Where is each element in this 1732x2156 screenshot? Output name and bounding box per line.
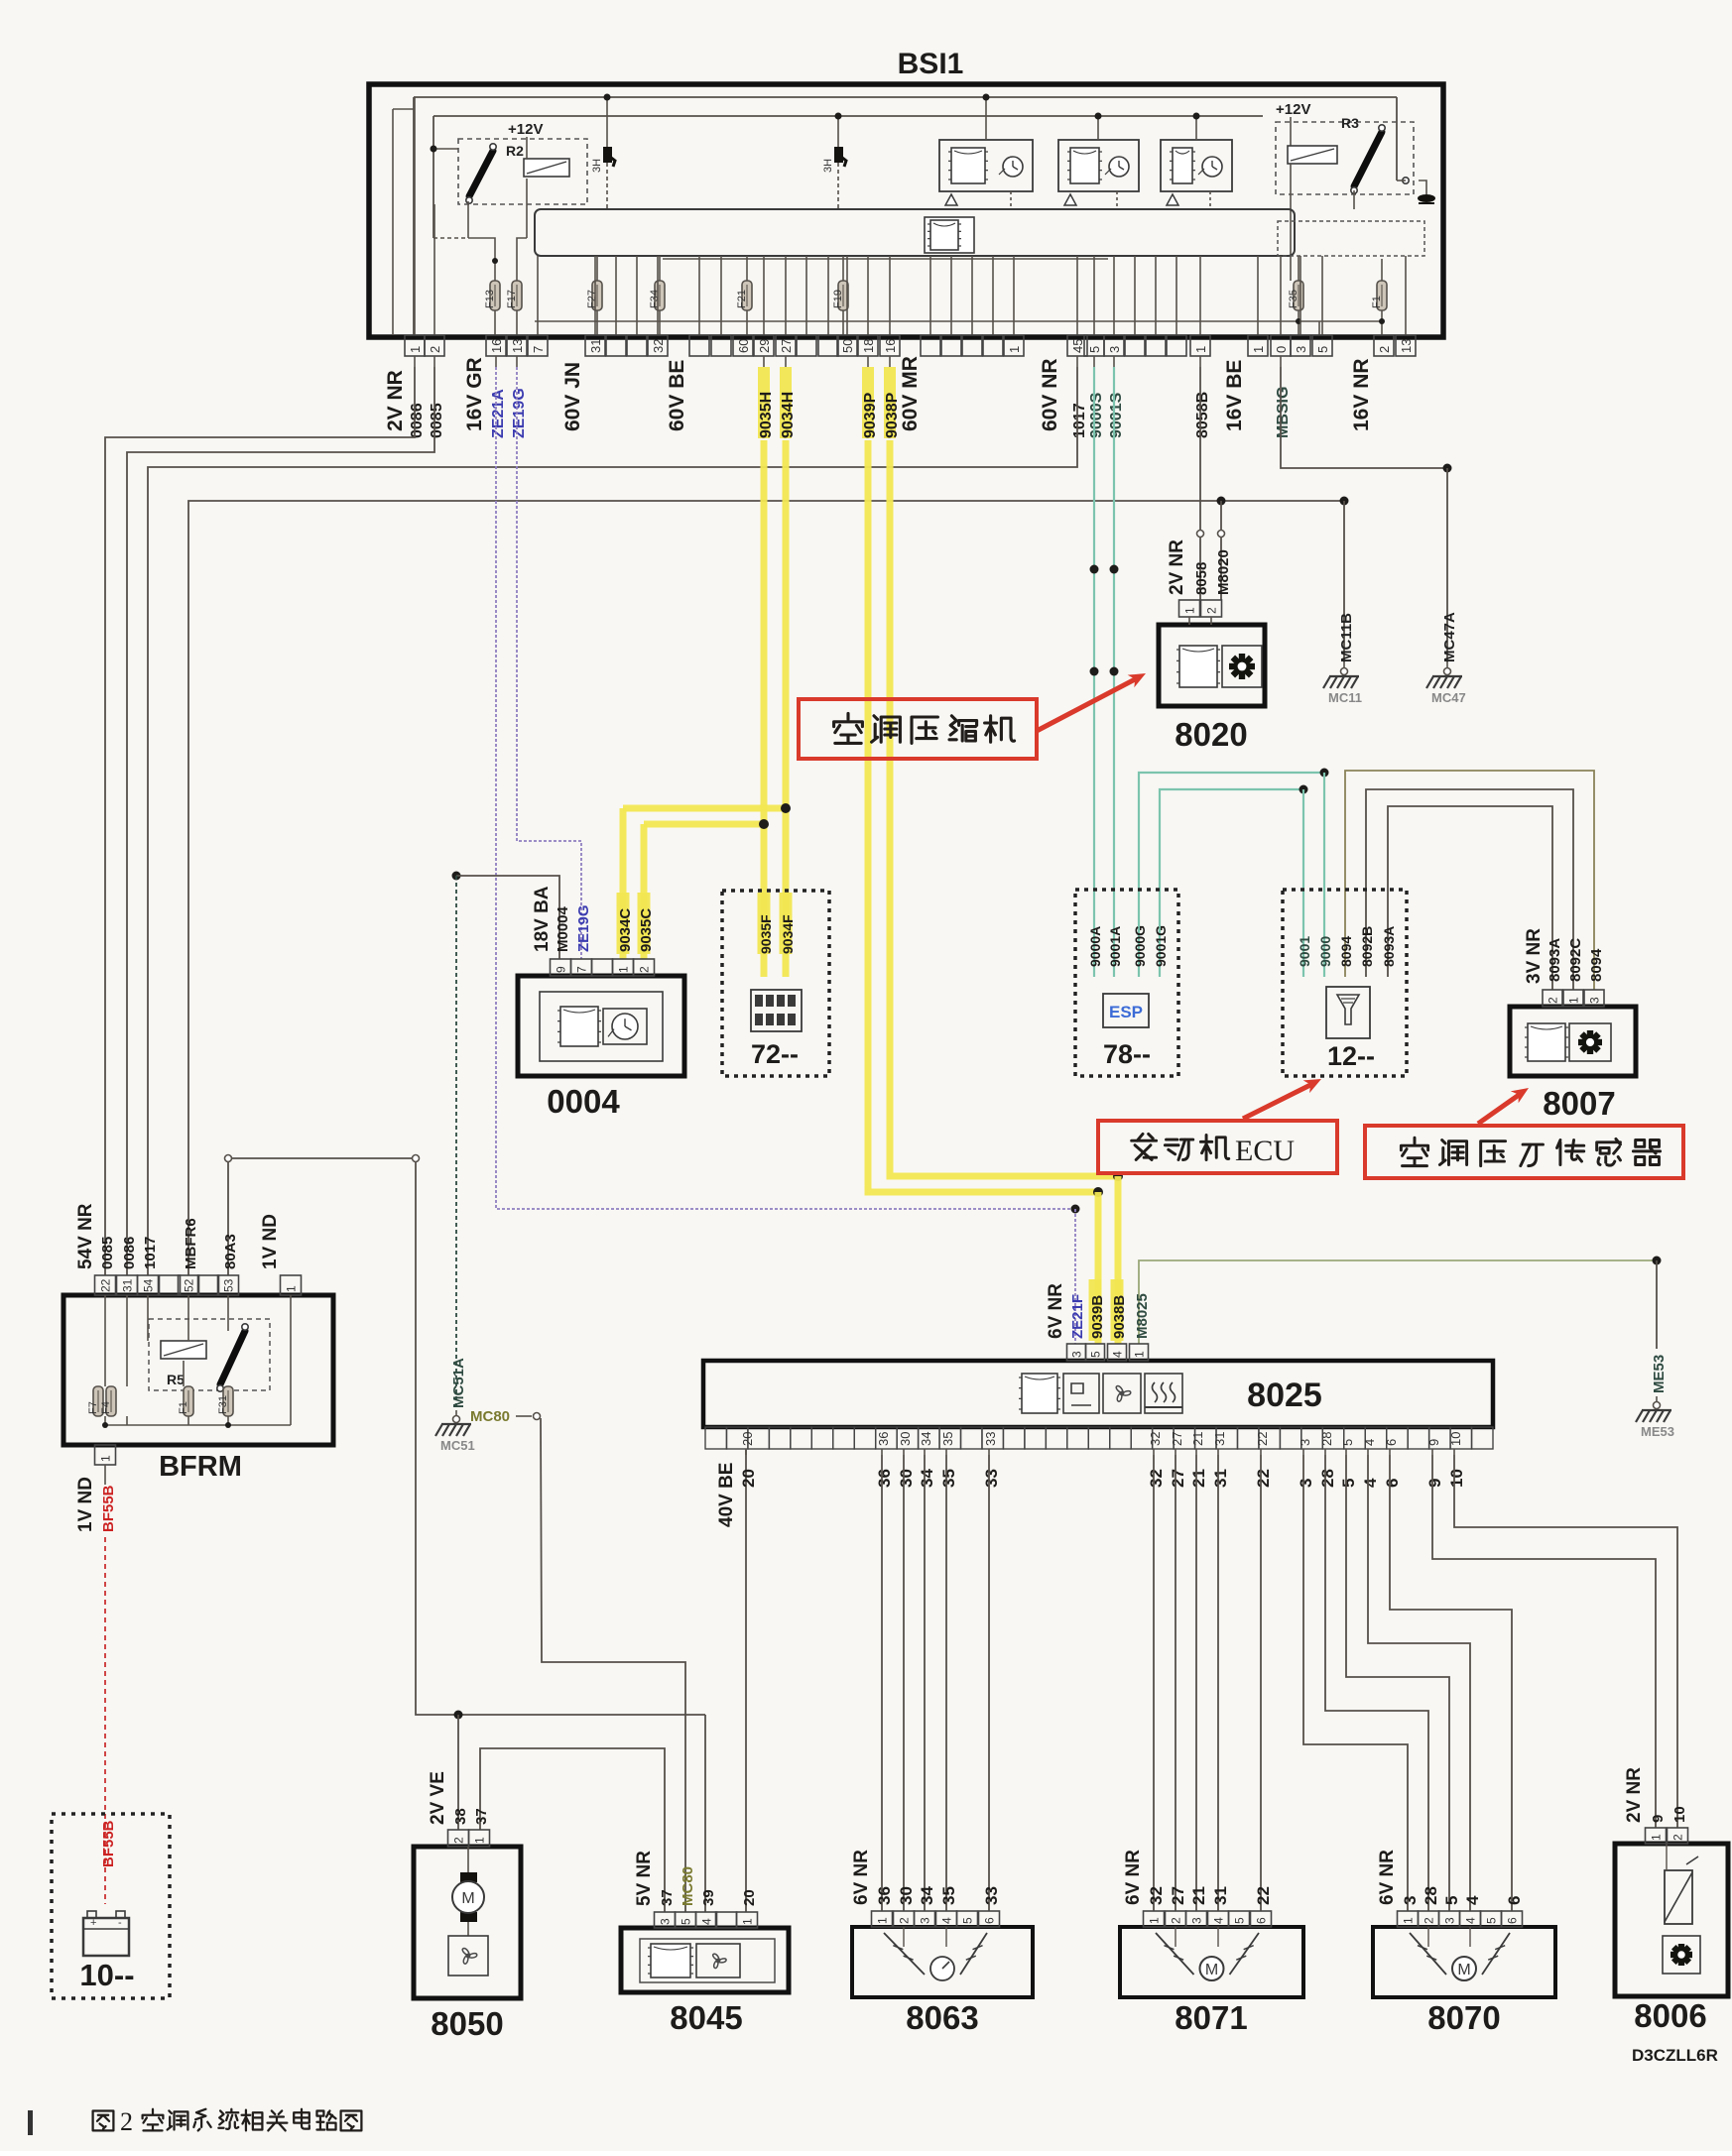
svg-text:3V NR: 3V NR	[1524, 928, 1545, 984]
svg-text:5: 5	[680, 1918, 693, 1925]
svg-text:16V GR: 16V GR	[463, 357, 486, 431]
svg-text:1: 1	[1133, 1351, 1147, 1358]
svg-text:8070: 8070	[1427, 1999, 1500, 2036]
svg-text:52: 52	[183, 1278, 196, 1292]
svg-text:8025: 8025	[1247, 1377, 1322, 1414]
svg-text:3H: 3H	[591, 159, 603, 173]
svg-text:21: 21	[1190, 1432, 1205, 1446]
svg-text:9039B: 9039B	[1089, 1295, 1106, 1339]
svg-text:0086: 0086	[121, 1237, 138, 1269]
svg-text:5: 5	[1339, 1479, 1358, 1488]
svg-text:8092C: 8092C	[1567, 938, 1584, 982]
svg-text:R3: R3	[1341, 115, 1359, 131]
svg-text:5: 5	[1089, 1351, 1103, 1358]
svg-text:2V NR: 2V NR	[384, 370, 407, 431]
svg-text:9: 9	[1425, 1479, 1444, 1488]
svg-text:20: 20	[740, 1432, 755, 1446]
svg-text:ZE19G: ZE19G	[511, 388, 528, 438]
svg-text:5: 5	[1442, 1896, 1461, 1905]
svg-text:3: 3	[659, 1918, 673, 1925]
svg-text:5: 5	[1233, 1917, 1247, 1924]
svg-text:ZE19G: ZE19G	[575, 904, 592, 952]
svg-text:28: 28	[1318, 1469, 1337, 1488]
svg-text:1: 1	[617, 966, 631, 973]
svg-text:9001G: 9001G	[1153, 925, 1169, 967]
svg-text:34: 34	[918, 1469, 936, 1488]
svg-text:ME53: ME53	[1641, 1424, 1674, 1439]
svg-text:9: 9	[555, 966, 568, 973]
svg-text:7: 7	[531, 346, 546, 353]
svg-text:F7: F7	[87, 1401, 99, 1414]
svg-text:9: 9	[1426, 1439, 1441, 1446]
svg-text:6: 6	[1505, 1896, 1524, 1905]
svg-text:F17: F17	[506, 290, 518, 308]
svg-text:1017: 1017	[1071, 403, 1088, 438]
svg-text:9039P: 9039P	[862, 392, 879, 438]
svg-text:BF55B: BF55B	[100, 1820, 117, 1867]
svg-text:60V MR: 60V MR	[899, 356, 922, 431]
svg-text:0086: 0086	[409, 403, 426, 438]
svg-text:MC47A: MC47A	[1441, 612, 1458, 662]
svg-text:32: 32	[651, 339, 666, 353]
svg-text:MBFR6: MBFR6	[183, 1218, 199, 1269]
svg-text:MBSIG: MBSIG	[1275, 387, 1292, 438]
svg-text:34: 34	[919, 1432, 933, 1446]
svg-text:F1: F1	[178, 1401, 189, 1414]
svg-text:6: 6	[1384, 1439, 1399, 1446]
svg-text:9: 9	[1650, 1815, 1667, 1823]
svg-text:3: 3	[1588, 997, 1602, 1004]
svg-text:4: 4	[1111, 1351, 1125, 1358]
svg-text:8071: 8071	[1175, 1999, 1247, 2036]
svg-text:3: 3	[1190, 1917, 1204, 1924]
svg-text:1: 1	[1007, 346, 1022, 353]
svg-text:MC11: MC11	[1328, 690, 1362, 705]
svg-text:F13: F13	[484, 290, 496, 308]
svg-text:4: 4	[1212, 1917, 1226, 1924]
svg-text:F21: F21	[736, 290, 748, 308]
svg-text:ECU: ECU	[1235, 1135, 1295, 1167]
svg-text:9034C: 9034C	[617, 908, 634, 952]
svg-text:8050: 8050	[431, 2005, 503, 2042]
svg-text:5: 5	[1485, 1917, 1499, 1924]
svg-text:3: 3	[1070, 1351, 1084, 1358]
svg-text:0085: 0085	[99, 1237, 116, 1269]
svg-text:16V NR: 16V NR	[1350, 358, 1373, 431]
svg-text:36: 36	[876, 1432, 891, 1446]
svg-text:8093A: 8093A	[1381, 926, 1397, 967]
svg-text:9034F: 9034F	[780, 914, 796, 954]
svg-text:60V NR: 60V NR	[1039, 358, 1061, 431]
svg-text:54V NR: 54V NR	[75, 1203, 96, 1269]
svg-text:M8020: M8020	[1215, 549, 1232, 595]
svg-text:18: 18	[861, 339, 876, 353]
svg-text:8045: 8045	[670, 1999, 742, 2036]
svg-text:22: 22	[1254, 1886, 1273, 1905]
svg-text:13: 13	[1399, 339, 1414, 353]
svg-text:13: 13	[510, 339, 525, 353]
svg-text:4: 4	[940, 1917, 954, 1924]
svg-text:MC47: MC47	[1431, 690, 1466, 705]
svg-text:31: 31	[588, 339, 603, 353]
svg-text:37: 37	[659, 1889, 676, 1906]
svg-text:37: 37	[473, 1808, 490, 1825]
svg-text:10--: 10--	[79, 1958, 134, 1992]
svg-text:6: 6	[1506, 1917, 1520, 1924]
svg-text:F1: F1	[1371, 296, 1383, 308]
svg-text:33: 33	[983, 1432, 998, 1446]
svg-text:2: 2	[638, 966, 652, 973]
svg-text:2V VE: 2V VE	[428, 1771, 448, 1825]
svg-text:MC51: MC51	[440, 1438, 475, 1453]
svg-text:9035C: 9035C	[638, 908, 655, 952]
svg-text:6: 6	[983, 1917, 997, 1924]
svg-text:MC11B: MC11B	[1338, 613, 1355, 662]
svg-text:40V BE: 40V BE	[716, 1463, 737, 1527]
svg-text:31: 31	[1212, 1432, 1227, 1446]
svg-text:MC80: MC80	[680, 1866, 696, 1906]
svg-text:R5: R5	[167, 1372, 185, 1387]
svg-text:54: 54	[142, 1278, 156, 1292]
svg-text:F19: F19	[832, 290, 844, 308]
svg-text:2: 2	[1377, 346, 1392, 353]
svg-text:8006: 8006	[1634, 1997, 1706, 2034]
svg-text:20: 20	[741, 1889, 758, 1906]
svg-text:38: 38	[452, 1808, 469, 1825]
svg-text:MC51A: MC51A	[450, 1358, 467, 1408]
svg-text:1: 1	[1402, 1917, 1416, 1924]
svg-text:36: 36	[875, 1886, 894, 1905]
svg-text:6V NR: 6V NR	[1123, 1850, 1144, 1905]
svg-text:30: 30	[898, 1432, 913, 1446]
svg-text:60V JN: 60V JN	[561, 362, 584, 431]
svg-text:16V BE: 16V BE	[1223, 360, 1246, 431]
svg-text:2: 2	[1546, 997, 1560, 1004]
svg-text:9035F: 9035F	[758, 914, 774, 954]
svg-text:9001A: 9001A	[1107, 926, 1123, 967]
svg-text:2: 2	[898, 1917, 912, 1924]
svg-text:31: 31	[121, 1278, 135, 1292]
svg-text:3: 3	[1401, 1896, 1420, 1905]
svg-text:D3CZLL6R: D3CZLL6R	[1632, 2046, 1718, 2065]
svg-text:5: 5	[1087, 346, 1102, 353]
svg-text:10: 10	[1671, 1806, 1688, 1823]
svg-text:ME53: ME53	[1651, 1355, 1668, 1393]
svg-text:34: 34	[918, 1886, 936, 1905]
svg-text:3: 3	[919, 1917, 932, 1924]
svg-text:8058: 8058	[1193, 562, 1210, 595]
svg-text:M: M	[461, 1890, 474, 1907]
svg-text:32: 32	[1147, 1886, 1166, 1905]
svg-text:9001: 9001	[1297, 936, 1312, 967]
svg-text:9038P: 9038P	[884, 392, 901, 438]
svg-text:BSI1: BSI1	[898, 48, 964, 80]
svg-text:ZE21A: ZE21A	[490, 389, 507, 438]
svg-text:9000S: 9000S	[1088, 392, 1105, 438]
svg-text:35: 35	[939, 1886, 958, 1905]
svg-text:35: 35	[940, 1432, 955, 1446]
svg-text:F4: F4	[100, 1401, 112, 1414]
svg-text:50: 50	[840, 339, 855, 353]
svg-text:4: 4	[1464, 1917, 1478, 1924]
svg-text:16: 16	[883, 339, 898, 353]
svg-text:6V NR: 6V NR	[1046, 1283, 1066, 1339]
svg-text:4: 4	[1361, 1478, 1380, 1488]
svg-text:60: 60	[736, 339, 751, 353]
svg-text:5: 5	[1315, 346, 1330, 353]
svg-text:6V NR: 6V NR	[851, 1850, 872, 1905]
svg-text:39: 39	[700, 1889, 717, 1906]
svg-text:ZE21F: ZE21F	[1069, 1294, 1086, 1339]
svg-text:1: 1	[285, 1285, 299, 1292]
svg-text:1: 1	[1251, 346, 1266, 353]
svg-text:5: 5	[961, 1917, 975, 1924]
svg-text:F35: F35	[1288, 290, 1299, 308]
svg-text:30: 30	[897, 1469, 916, 1488]
svg-text:+12V: +12V	[1276, 101, 1310, 118]
svg-text:1: 1	[1193, 346, 1208, 353]
svg-text:+12V: +12V	[508, 121, 543, 138]
svg-text:9000G: 9000G	[1132, 925, 1148, 967]
svg-text:8093A: 8093A	[1546, 938, 1563, 982]
svg-text:7: 7	[575, 966, 589, 973]
svg-text:27: 27	[1170, 1432, 1184, 1446]
svg-text:21: 21	[1189, 1886, 1208, 1905]
svg-text:9001S: 9001S	[1108, 392, 1125, 438]
svg-text:9038B: 9038B	[1111, 1295, 1128, 1339]
svg-text:1017: 1017	[142, 1237, 159, 1269]
svg-text:3H: 3H	[822, 159, 834, 173]
svg-text:8094: 8094	[1588, 948, 1605, 982]
svg-text:0085: 0085	[429, 403, 445, 438]
svg-text:1: 1	[408, 346, 423, 353]
svg-text:32: 32	[1148, 1432, 1163, 1446]
svg-text:8094: 8094	[1338, 936, 1354, 967]
svg-text:1V ND: 1V ND	[75, 1477, 96, 1532]
svg-text:22: 22	[99, 1278, 113, 1292]
svg-text:12--: 12--	[1327, 1041, 1375, 1071]
svg-text:5: 5	[1340, 1439, 1355, 1446]
svg-text:22: 22	[1254, 1469, 1273, 1488]
svg-text:8007: 8007	[1543, 1085, 1615, 1122]
svg-text:MC80: MC80	[470, 1408, 510, 1425]
svg-text:F34: F34	[649, 290, 661, 308]
svg-text:27: 27	[779, 339, 794, 353]
svg-text:10: 10	[1448, 1432, 1463, 1446]
svg-text:31: 31	[1211, 1469, 1230, 1488]
svg-text:36: 36	[875, 1469, 894, 1488]
svg-text:2: 2	[120, 2107, 133, 2136]
svg-text:9035H: 9035H	[758, 392, 775, 438]
svg-text:ESP: ESP	[1109, 1003, 1143, 1021]
svg-text:20: 20	[739, 1469, 758, 1488]
svg-text:2V NR: 2V NR	[1167, 539, 1187, 595]
svg-text:-: -	[118, 1917, 122, 1929]
svg-text:35: 35	[939, 1469, 958, 1488]
svg-text:2: 2	[1205, 607, 1219, 614]
svg-text:BFRM: BFRM	[159, 1451, 242, 1483]
svg-text:1: 1	[99, 1455, 113, 1462]
svg-text:1: 1	[1567, 997, 1581, 1004]
svg-text:8058B: 8058B	[1194, 392, 1211, 438]
svg-text:2: 2	[1423, 1917, 1436, 1924]
svg-text:1: 1	[1650, 1834, 1664, 1841]
svg-text:3: 3	[1297, 1479, 1315, 1488]
svg-text:2: 2	[1170, 1917, 1183, 1924]
svg-text:8020: 8020	[1175, 716, 1247, 753]
svg-text:0004: 0004	[547, 1083, 620, 1120]
svg-text:+: +	[90, 1917, 96, 1929]
svg-text:4: 4	[1463, 1895, 1482, 1905]
svg-text:6V NR: 6V NR	[1377, 1850, 1398, 1905]
svg-text:R2: R2	[506, 143, 524, 159]
svg-text:53: 53	[222, 1278, 236, 1292]
svg-text:F31: F31	[217, 1395, 229, 1414]
svg-text:2: 2	[452, 1837, 466, 1844]
svg-text:3: 3	[1298, 1439, 1312, 1446]
svg-text:0: 0	[1274, 346, 1289, 353]
svg-text:4: 4	[700, 1918, 714, 1925]
svg-text:3: 3	[1443, 1917, 1457, 1924]
svg-text:32: 32	[1147, 1469, 1166, 1488]
svg-text:M0004: M0004	[555, 905, 571, 952]
svg-text:4: 4	[1362, 1439, 1377, 1446]
svg-text:2: 2	[428, 346, 442, 353]
svg-text:45: 45	[1070, 339, 1085, 353]
svg-text:27: 27	[1169, 1886, 1187, 1905]
svg-text:8092B: 8092B	[1359, 926, 1375, 967]
svg-text:72--: 72--	[751, 1039, 799, 1069]
svg-text:1V ND: 1V ND	[260, 1214, 281, 1269]
svg-text:BF55B: BF55B	[100, 1485, 117, 1532]
svg-text:5V NR: 5V NR	[634, 1851, 655, 1906]
svg-text:1: 1	[473, 1837, 487, 1844]
svg-text:28: 28	[1422, 1886, 1440, 1905]
svg-text:31: 31	[1211, 1886, 1230, 1905]
svg-text:16: 16	[489, 339, 504, 353]
svg-text:33: 33	[982, 1886, 1001, 1905]
svg-text:30: 30	[897, 1886, 916, 1905]
svg-text:1: 1	[1148, 1917, 1162, 1924]
svg-text:9000: 9000	[1317, 936, 1333, 967]
svg-text:21: 21	[1189, 1469, 1208, 1488]
svg-text:80A3: 80A3	[222, 1234, 239, 1269]
svg-text:1: 1	[741, 1918, 755, 1925]
svg-text:8063: 8063	[906, 1999, 978, 2036]
svg-text:6: 6	[1255, 1917, 1269, 1924]
svg-text:60V BE: 60V BE	[666, 360, 688, 431]
svg-text:9034H: 9034H	[780, 392, 797, 438]
svg-text:2V NR: 2V NR	[1624, 1767, 1645, 1823]
svg-text:M: M	[1205, 1962, 1218, 1978]
svg-text:3: 3	[1294, 346, 1308, 353]
svg-text:6: 6	[1383, 1479, 1402, 1488]
svg-text:1: 1	[876, 1917, 890, 1924]
svg-text:M: M	[1457, 1962, 1470, 1978]
svg-text:3: 3	[1107, 346, 1122, 353]
svg-text:27: 27	[1169, 1469, 1187, 1488]
svg-text:22: 22	[1255, 1432, 1270, 1446]
svg-text:33: 33	[982, 1469, 1001, 1488]
svg-text:29: 29	[757, 339, 772, 353]
svg-text:2: 2	[1671, 1834, 1685, 1841]
svg-text:9000A: 9000A	[1087, 926, 1103, 967]
svg-text:1: 1	[1183, 607, 1197, 614]
svg-text:18V BA: 18V BA	[532, 886, 553, 952]
svg-text:M8025: M8025	[1134, 1293, 1151, 1339]
svg-text:10: 10	[1447, 1469, 1466, 1488]
svg-text:F27: F27	[586, 290, 598, 308]
svg-text:28: 28	[1319, 1432, 1334, 1446]
svg-text:78--: 78--	[1103, 1039, 1151, 1069]
